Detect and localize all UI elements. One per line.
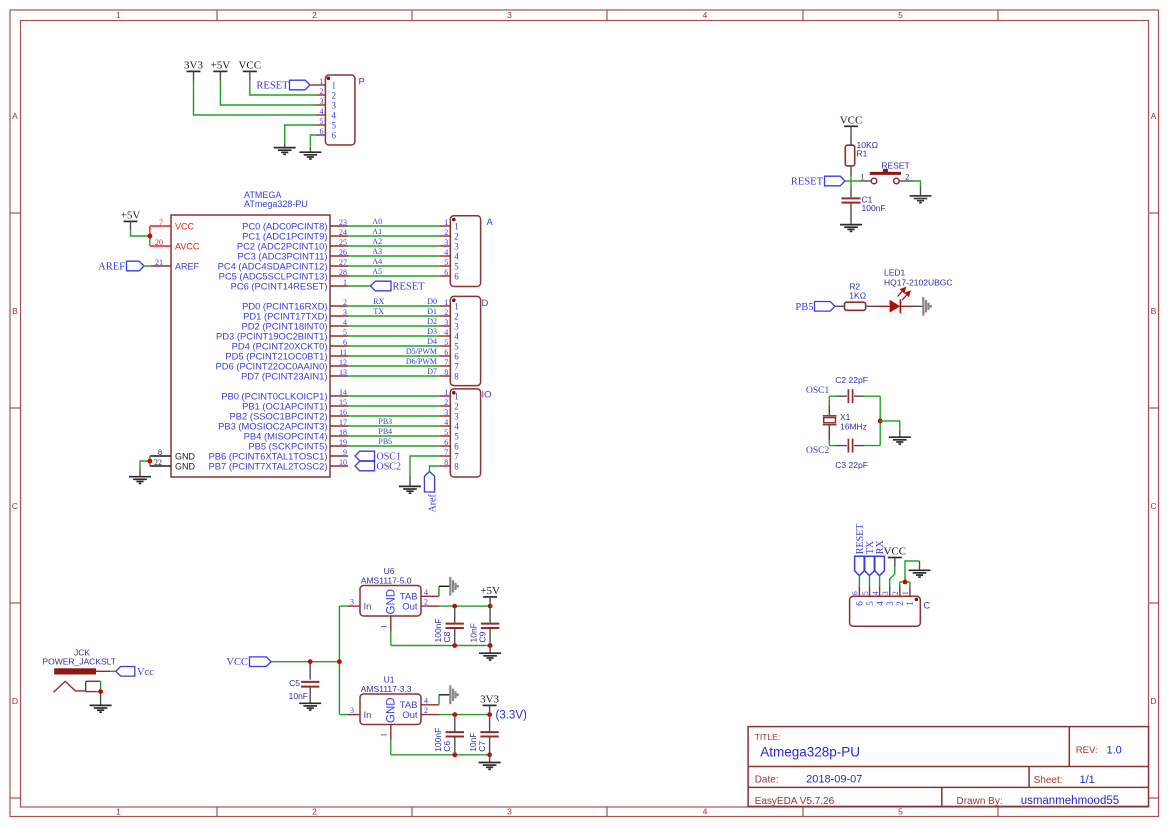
- connector P: [325, 75, 355, 145]
- wire net IO5: [348, 435, 440, 437]
- ground (switch): [910, 196, 932, 203]
- pin 2 Out (U1): [421, 714, 439, 716]
- svg-text:3: 3: [320, 97, 324, 106]
- junction jack ground: [98, 689, 103, 694]
- svg-text:+5V: +5V: [121, 210, 141, 222]
- svg-text:C: C: [923, 600, 930, 611]
- net flag VCC (input): [250, 657, 272, 667]
- net flag OSC2: [355, 461, 375, 471]
- svg-text:28: 28: [339, 268, 347, 277]
- wire net A2: [348, 245, 440, 247]
- pushbutton RESET: [871, 178, 877, 184]
- resistor R1: [845, 145, 854, 166]
- svg-text:A5: A5: [372, 267, 382, 276]
- svg-text:1: 1: [343, 278, 347, 287]
- svg-text:5: 5: [898, 807, 903, 817]
- wire VCC to P pin2: [250, 81, 316, 95]
- wire R2 to LED1: [866, 305, 875, 307]
- svg-text:6: 6: [444, 348, 448, 357]
- svg-text:5: 5: [454, 342, 459, 352]
- wire net IO6: [348, 445, 440, 447]
- svg-text:C5: C5: [289, 678, 300, 688]
- wire C5 to ground: [309, 688, 311, 703]
- svg-text:A4: A4: [372, 257, 382, 266]
- pin 3 In (U6): [339, 605, 348, 607]
- svg-text:2: 2: [424, 598, 428, 607]
- svg-text:1: 1: [905, 601, 915, 606]
- svg-text:PB5: PB5: [378, 437, 392, 446]
- pin 27 PC4: [330, 265, 348, 267]
- svg-text:D2: D2: [427, 317, 437, 326]
- svg-text:1: 1: [116, 807, 121, 817]
- svg-text:1: 1: [332, 81, 337, 91]
- svg-text:TX: TX: [373, 307, 384, 316]
- svg-text:5: 5: [320, 117, 324, 126]
- svg-text:3: 3: [454, 322, 459, 332]
- pin 8 GND: [150, 455, 171, 457]
- svg-text:7: 7: [444, 358, 448, 367]
- svg-text:PB5: PB5: [795, 302, 813, 313]
- svg-text:1: 1: [320, 77, 324, 86]
- svg-text:3: 3: [881, 591, 890, 595]
- IC ATMEGA ATmega328-PU: [171, 215, 330, 477]
- svg-text:D1: D1: [427, 307, 437, 316]
- pin 17 PB3: [330, 425, 348, 427]
- svg-text:PB4: PB4: [378, 427, 392, 436]
- junction VCC/AVCC: [148, 234, 153, 239]
- svg-text:3: 3: [454, 412, 459, 422]
- connector C: [850, 596, 921, 626]
- svg-text:6: 6: [343, 338, 347, 347]
- svg-text:19: 19: [339, 438, 347, 447]
- wire net A1: [348, 235, 440, 237]
- svg-text:8: 8: [444, 458, 448, 467]
- svg-text:Out: Out: [402, 710, 418, 721]
- wire rail to ground (U6): [489, 646, 491, 653]
- svg-text:1/1: 1/1: [1080, 774, 1095, 786]
- title block: [748, 727, 1148, 807]
- svg-text:15: 15: [339, 398, 347, 407]
- svg-text:TITLE:: TITLE:: [755, 732, 781, 742]
- voltage regulator U1: [360, 694, 421, 725]
- pin 23 PC0: [330, 225, 348, 227]
- svg-text:4: 4: [454, 332, 459, 342]
- wire net D6/PWM: [348, 365, 440, 367]
- svg-text:A: A: [487, 217, 494, 228]
- svg-text:2: 2: [444, 398, 448, 407]
- power jack sleeve: [85, 681, 87, 691]
- pin 2 Out (U6): [421, 605, 439, 607]
- pin 1 GND (U1): [390, 725, 392, 740]
- svg-text:3: 3: [343, 308, 347, 317]
- svg-text:5: 5: [454, 432, 459, 442]
- wire net D5/PWM: [348, 355, 440, 357]
- svg-text:20: 20: [155, 238, 163, 247]
- junction rail 2 (U1): [487, 752, 492, 757]
- net flag PB5: [815, 302, 836, 312]
- svg-text:25: 25: [339, 238, 347, 247]
- net flag RX: [875, 556, 885, 575]
- ground (IO7): [399, 486, 421, 493]
- pin 11 PD5: [330, 355, 348, 357]
- wire Out rail (U6): [439, 605, 490, 607]
- wire net D2: [348, 325, 440, 327]
- ground (LED): [923, 297, 930, 316]
- pin 4 TAB (U6): [421, 595, 439, 597]
- svg-text:16MHz: 16MHz: [840, 422, 867, 432]
- svg-text:D0: D0: [427, 297, 437, 306]
- svg-text:P: P: [359, 77, 365, 88]
- svg-text:3: 3: [507, 10, 512, 20]
- svg-text:IO: IO: [482, 390, 492, 401]
- svg-text:AMS1117-3.3: AMS1117-3.3: [361, 684, 412, 694]
- svg-text:In: In: [364, 710, 372, 721]
- svg-text:Out: Out: [402, 602, 418, 613]
- wire net A3: [348, 255, 440, 257]
- svg-text:3: 3: [454, 242, 459, 252]
- wire ground rail (U1): [391, 754, 490, 756]
- svg-text:Atmega328p-PU: Atmega328p-PU: [760, 744, 860, 759]
- svg-text:D4: D4: [427, 337, 437, 346]
- svg-text:3: 3: [350, 598, 354, 607]
- junction VCC rail 2: [337, 659, 342, 664]
- wire net A0: [348, 225, 440, 227]
- svg-text:7: 7: [159, 218, 163, 227]
- svg-text:7: 7: [454, 452, 459, 462]
- net flag RESET (node): [825, 176, 846, 186]
- svg-text:3V3: 3V3: [480, 694, 499, 706]
- svg-text:A: A: [1151, 111, 1157, 121]
- svg-text:1: 1: [444, 298, 448, 307]
- resistor R2: [845, 302, 866, 310]
- svg-text:VCC: VCC: [883, 546, 906, 558]
- junction rail 1 (U1): [452, 752, 457, 757]
- svg-text:Drawn By:: Drawn By:: [957, 796, 1003, 807]
- svg-text:REV:: REV:: [1076, 745, 1098, 756]
- junction crystal: [878, 419, 883, 424]
- ground (rail U6): [479, 653, 501, 660]
- pin 24 PC1: [330, 235, 348, 237]
- wire IO8 to Aref: [430, 466, 441, 472]
- svg-text:C3 22pF: C3 22pF: [835, 460, 868, 470]
- pin 3 In (U1): [339, 714, 348, 716]
- junction GND: [148, 459, 153, 464]
- wire C pins 1,2 to ground: [899, 582, 901, 587]
- connector D: [450, 296, 480, 385]
- pin 4 PD2: [330, 325, 348, 327]
- pin 22 GND: [150, 465, 171, 467]
- svg-text:RESET: RESET: [393, 282, 426, 293]
- svg-text:2: 2: [891, 591, 900, 595]
- svg-text:A2: A2: [372, 237, 382, 246]
- svg-text:6: 6: [332, 131, 337, 141]
- svg-text:4: 4: [703, 807, 708, 817]
- junction Out 2 (U6): [488, 604, 493, 609]
- wire +5V to VCC/AVCC: [149, 226, 151, 236]
- ground (rail U1): [479, 763, 501, 770]
- svg-text:2: 2: [905, 172, 909, 181]
- capacitor C9: [489, 606, 491, 623]
- ground (P pin6): [299, 152, 321, 159]
- svg-text:5: 5: [865, 601, 875, 606]
- wire net IO1: [348, 395, 440, 397]
- svg-text:17: 17: [339, 418, 347, 427]
- svg-text:5: 5: [444, 428, 448, 437]
- wire net D1: [348, 315, 440, 317]
- svg-text:AREF: AREF: [98, 261, 125, 272]
- svg-text:6: 6: [851, 591, 860, 595]
- svg-text:4: 4: [424, 696, 428, 705]
- wire Out rail (U1): [439, 714, 490, 716]
- svg-text:C9: C9: [477, 631, 487, 642]
- svg-text:22: 22: [154, 458, 162, 467]
- wire node to C1: [850, 187, 852, 197]
- ground (chip GND): [129, 477, 151, 484]
- wire crystal left: [828, 396, 830, 405]
- svg-text:1: 1: [860, 172, 864, 181]
- svg-text:5: 5: [343, 328, 347, 337]
- capacitor C5: [301, 681, 319, 683]
- svg-text:RESET: RESET: [881, 161, 909, 171]
- svg-text:6: 6: [454, 272, 459, 282]
- ground (jack): [90, 705, 112, 712]
- capacitor C6: [454, 715, 456, 732]
- LED LED1: [890, 300, 901, 313]
- svg-text:4: 4: [454, 422, 459, 432]
- svg-text:3: 3: [444, 408, 448, 417]
- pin 25 PC2: [330, 245, 348, 247]
- net flag AREF: [127, 261, 145, 271]
- svg-text:6: 6: [444, 268, 448, 277]
- svg-text:RESET: RESET: [256, 80, 289, 91]
- pin 9 PB6: [330, 455, 348, 457]
- svg-text:1: 1: [901, 591, 910, 595]
- wire P pin6 to ground: [310, 135, 315, 148]
- svg-text:4: 4: [444, 418, 448, 427]
- wire node to switch pin1: [845, 180, 859, 182]
- wire jack to Vcc: [110, 670, 116, 672]
- svg-text:1: 1: [454, 302, 459, 312]
- svg-text:4: 4: [343, 318, 347, 327]
- svg-text:9: 9: [343, 448, 347, 457]
- pin 7 VCC: [150, 225, 171, 227]
- net flag RESET (serial): [855, 556, 865, 575]
- svg-text:2: 2: [454, 312, 459, 322]
- svg-text:B: B: [1151, 306, 1157, 316]
- ground (C5): [299, 703, 321, 710]
- wire net D4: [348, 345, 440, 347]
- svg-text:1: 1: [454, 392, 459, 402]
- capacitor C1: [842, 197, 861, 199]
- pin 6 PD4: [330, 345, 348, 347]
- svg-text:EasyEDA V5.7.26: EasyEDA V5.7.26: [755, 796, 835, 807]
- svg-text:B: B: [12, 306, 18, 316]
- capacitor C7: [489, 715, 491, 732]
- svg-text:4: 4: [332, 111, 337, 121]
- svg-text:23: 23: [339, 218, 347, 227]
- svg-text:3: 3: [332, 101, 337, 111]
- wire net IO4: [348, 425, 440, 427]
- pin 1 GND (U6): [390, 616, 392, 631]
- crystal X1: [823, 415, 837, 417]
- svg-text:AREF: AREF: [175, 261, 200, 271]
- svg-text:OSC1: OSC1: [806, 386, 829, 396]
- wire C1 to ground: [850, 204, 852, 225]
- svg-text:4: 4: [875, 601, 885, 606]
- wire net A4: [348, 265, 440, 267]
- wire C5 stem: [309, 662, 311, 680]
- svg-text:5: 5: [332, 121, 337, 131]
- pin 28 PC5: [330, 275, 348, 277]
- junction Out 2 (U1): [487, 712, 492, 717]
- svg-text:GND: GND: [386, 697, 398, 723]
- junction rail 1 (U6): [452, 643, 457, 648]
- wire junction to ground: [880, 421, 900, 431]
- svg-text:4: 4: [454, 252, 459, 262]
- svg-text:(3.3V): (3.3V): [496, 710, 527, 722]
- pin 18 PB4: [330, 435, 348, 437]
- svg-text:C8: C8: [442, 631, 452, 642]
- svg-text:10nF: 10nF: [289, 691, 308, 701]
- wire R1 to node RESET: [850, 166, 852, 176]
- svg-text:14: 14: [339, 388, 347, 397]
- svg-text:D3: D3: [427, 327, 437, 336]
- net flag RESET (PC6): [348, 285, 371, 287]
- svg-text:6: 6: [444, 438, 448, 447]
- svg-text:2: 2: [454, 402, 459, 412]
- svg-text:1: 1: [116, 10, 121, 20]
- ground (P pin5): [274, 148, 296, 155]
- svg-text:1: 1: [454, 222, 459, 232]
- junction VCC rail 1: [308, 659, 313, 664]
- wire rail to ground (U1): [489, 755, 491, 762]
- svg-text:6: 6: [454, 442, 459, 452]
- svg-text:Vcc: Vcc: [137, 667, 154, 678]
- svg-text:4: 4: [703, 10, 708, 20]
- svg-text:2: 2: [320, 87, 324, 96]
- svg-text:Aref: Aref: [428, 494, 439, 513]
- svg-text:D5/PWM: D5/PWM: [406, 347, 437, 356]
- svg-text:7: 7: [454, 362, 459, 372]
- svg-text:GND: GND: [175, 451, 196, 461]
- svg-text:3: 3: [885, 601, 895, 606]
- svg-text:C: C: [12, 501, 18, 511]
- capacitor C8: [454, 606, 456, 623]
- svg-text:16: 16: [339, 408, 347, 417]
- ground (TAB U1): [450, 685, 457, 704]
- svg-text:PB3: PB3: [378, 417, 392, 426]
- wire TAB to ground (U6): [438, 586, 440, 596]
- svg-text:4: 4: [871, 591, 880, 595]
- svg-text:AVCC: AVCC: [175, 241, 200, 251]
- svg-text:A3: A3: [372, 247, 382, 256]
- svg-text:3: 3: [444, 238, 448, 247]
- svg-text:6: 6: [454, 352, 459, 362]
- wire switch pin2 to ground: [900, 180, 913, 182]
- svg-text:LED1: LED1: [884, 267, 906, 277]
- wire 3V3 to P pin4: [194, 81, 316, 115]
- svg-text:D: D: [1150, 696, 1156, 706]
- svg-text:VCC: VCC: [226, 657, 248, 668]
- pin 14 PB0: [330, 395, 348, 397]
- svg-text:4: 4: [320, 107, 324, 116]
- svg-text:13: 13: [339, 368, 347, 377]
- svg-text:2: 2: [424, 706, 428, 715]
- ground (TAB U6): [450, 577, 457, 596]
- svg-text:8: 8: [444, 368, 448, 377]
- pin 16 PB2: [330, 415, 348, 417]
- pin 15 PB1: [330, 405, 348, 407]
- svg-text:3: 3: [350, 706, 354, 715]
- junction serial ground: [903, 580, 908, 585]
- net flag RESET (header): [290, 80, 311, 90]
- capacitor C2: [847, 389, 849, 403]
- svg-text:RX: RX: [373, 297, 384, 306]
- pin 26 PC3: [330, 255, 348, 257]
- svg-text:2: 2: [444, 228, 448, 237]
- svg-text:PD7 (PCINT23AIN1): PD7 (PCINT23AIN1): [241, 370, 327, 381]
- pin 12 PD6: [330, 365, 348, 367]
- pin 19 PB5: [330, 445, 348, 447]
- svg-text:VCC: VCC: [175, 221, 195, 231]
- svg-text:5: 5: [444, 258, 448, 267]
- wire TAB to ground (U1): [438, 695, 440, 705]
- svg-text:5: 5: [454, 262, 459, 272]
- svg-text:10: 10: [339, 458, 347, 467]
- svg-text:4: 4: [424, 588, 428, 597]
- power jack JCK barrel: [54, 668, 96, 674]
- svg-text:PC6 (PCINT14RESET): PC6 (PCINT14RESET): [231, 280, 328, 291]
- wire net D3: [348, 335, 440, 337]
- svg-text:2: 2: [454, 232, 459, 242]
- wire VCC to C pin3: [890, 567, 895, 587]
- svg-text:6: 6: [320, 127, 324, 136]
- svg-text:C: C: [1150, 501, 1156, 511]
- svg-text:C6: C6: [442, 741, 452, 752]
- wire net IO3: [348, 415, 440, 417]
- wire GND pins to ground: [149, 456, 151, 466]
- svg-text:1KΩ: 1KΩ: [849, 290, 866, 300]
- svg-text:usmanmehmood55: usmanmehmood55: [1021, 795, 1119, 807]
- svg-text:27: 27: [339, 258, 347, 267]
- svg-text:POWER_JACKSLT: POWER_JACKSLT: [42, 656, 116, 666]
- wire crystal right: [879, 396, 881, 445]
- wire LED1 to ground: [900, 305, 913, 307]
- pin 3 PD1: [330, 315, 348, 317]
- svg-text:26: 26: [339, 248, 347, 257]
- svg-text:11: 11: [339, 348, 347, 357]
- svg-text:1: 1: [380, 625, 389, 629]
- svg-text:A0: A0: [372, 217, 382, 226]
- wire net D7: [348, 375, 440, 377]
- svg-text:U6: U6: [384, 566, 395, 576]
- svg-text:D6/PWM: D6/PWM: [406, 357, 437, 366]
- power jack spring contact: [54, 681, 86, 692]
- ground (serial): [909, 570, 931, 577]
- connector A: [450, 216, 480, 287]
- voltage regulator U6: [360, 586, 421, 617]
- svg-text:100nF: 100nF: [862, 203, 886, 213]
- svg-text:RESET: RESET: [791, 176, 824, 187]
- svg-text:A: A: [12, 111, 18, 121]
- net flag Aref: [424, 472, 434, 493]
- svg-text:2: 2: [332, 91, 337, 101]
- svg-text:C2 22pF: C2 22pF: [835, 375, 868, 385]
- wire net D0: [348, 305, 440, 307]
- wire +5V to P pin3: [220, 81, 315, 105]
- capacitor C3: [847, 439, 849, 453]
- svg-text:2: 2: [312, 10, 317, 20]
